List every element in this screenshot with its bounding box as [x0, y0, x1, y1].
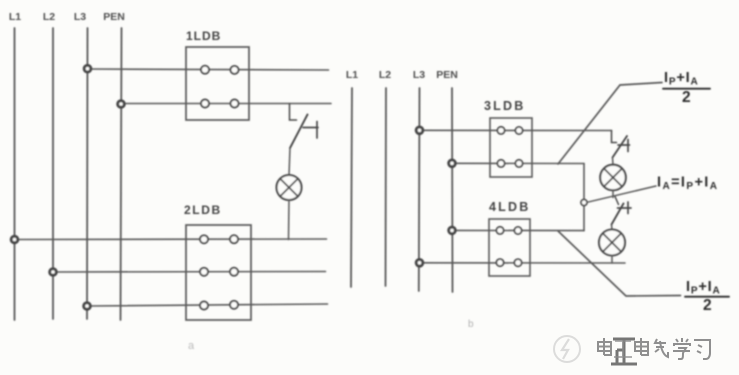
- svg-text:L1: L1: [346, 69, 358, 81]
- junction L3/row3 (a): [84, 303, 91, 310]
- wire L3 tap to 2LDB row3: [87, 304, 328, 306]
- wire switch to lamp (a): [289, 148, 290, 175]
- svg-text:PEN: PEN: [436, 69, 458, 81]
- junction PEN/row1-4LDB (b): [449, 227, 456, 234]
- wire switch to lamp EL2: [612, 158, 615, 165]
- wire L3 tap to 1LDB row1: [88, 69, 329, 70]
- svg-text:4LDB: 4LDB: [489, 200, 530, 214]
- svg-text:PEN: PEN: [103, 11, 125, 23]
- wire L3 tap to 3LDB row1: [420, 129, 612, 131]
- wire L1 vertical (a): [14, 28, 16, 320]
- switch S2 (b upper): [612, 131, 630, 158]
- terminal 2LDB pins: [200, 235, 238, 309]
- terminal 3LDB pins: [497, 127, 522, 167]
- svg-text:a: a: [188, 340, 195, 352]
- char dian 2: [635, 338, 648, 355]
- wire L2 vertical (b): [385, 88, 388, 286]
- svg-text:L1: L1: [9, 11, 21, 23]
- char xue: [673, 338, 690, 359]
- svg-text:2LDB: 2LDB: [184, 203, 222, 217]
- distribution box 3LDB: [484, 99, 532, 177]
- terminal 4LDB pins: [496, 227, 521, 267]
- svg-text:L3: L3: [74, 11, 86, 23]
- wire L3 vertical (a): [86, 28, 89, 319]
- lamp EL2 (b upper): [600, 165, 626, 191]
- wire lamp EL2 to node leader: [612, 190, 614, 197]
- wire PEN vertical (b): [451, 88, 454, 292]
- junction PEN/row2 (a): [118, 101, 125, 108]
- junction L3/row1 (a): [84, 65, 91, 72]
- wire lamp to row1 of 2LDB: [288, 200, 291, 240]
- wire L1 vertical (b): [351, 88, 352, 287]
- wire PEN tap to 3LDB row2: [452, 162, 584, 164]
- lamp EL3 (b lower): [599, 230, 625, 256]
- current label (Ip+Ia)/2 top: [663, 70, 710, 106]
- wire switch to lamp EL3: [611, 225, 614, 230]
- junction PEN/row2 (b): [449, 160, 456, 167]
- svg-text:2: 2: [703, 297, 712, 314]
- wire L1 tap to 2LDB row1: [15, 238, 327, 241]
- distribution box 1LDB: [186, 29, 249, 120]
- diagram a : phase labels: [9, 11, 125, 23]
- svg-text:L2: L2: [43, 11, 55, 23]
- watermark dark glyph (overlap): [611, 339, 637, 364]
- wire diagonal to top fraction label: [558, 83, 662, 165]
- wire L2 vertical (a): [52, 28, 54, 319]
- junction L3/row1 (b): [416, 127, 423, 134]
- switch S3 (b lower): [612, 197, 632, 225]
- distribution box 4LDB: [489, 200, 530, 276]
- watermark text dian-gong-dian-qi-xue-xi (stroke approximation): [598, 338, 710, 359]
- node N (current summing point): [581, 200, 587, 206]
- switch S1 (a): [290, 104, 319, 149]
- junction L3/row2-4LDB (b): [416, 260, 423, 267]
- leader node to current label: [587, 186, 656, 202]
- wire diagonal to bottom fraction label: [558, 231, 681, 296]
- wire PEN tap to 4LDB row1: [452, 229, 584, 231]
- wire PEN tap to 1LDB row2: [121, 103, 331, 105]
- wire L3 tap to 4LDB row2: [420, 262, 626, 264]
- char xi: [694, 340, 710, 359]
- svg-text:3LDB: 3LDB: [484, 99, 525, 113]
- svg-text:2: 2: [682, 89, 691, 106]
- char gong (under dark glyph): [614, 341, 632, 357]
- junction L1/row1 (a): [11, 236, 18, 243]
- wire PEN riser between 3LDB and 4LDB: [583, 164, 585, 231]
- svg-text:L2: L2: [379, 69, 391, 81]
- wire L3 vertical (b): [418, 88, 421, 291]
- current label (Ip+Ia)/2 bottom: [685, 279, 729, 314]
- wire PEN vertical (a): [121, 28, 122, 320]
- char dian 1: [598, 338, 611, 355]
- svg-text:1LDB: 1LDB: [186, 29, 221, 43]
- distribution box 2LDB: [184, 203, 251, 320]
- terminal 1LDB pins: [201, 66, 239, 108]
- wire L2 tap to 2LDB row2: [53, 271, 326, 274]
- lamp EL1 (a): [277, 175, 302, 200]
- wire lamp EL3 to L3 row: [611, 256, 613, 264]
- watermark icon: [554, 336, 580, 362]
- junction L2/row2 (a): [50, 269, 57, 276]
- svg-text:b: b: [468, 319, 474, 330]
- svg-text:L3: L3: [413, 69, 425, 81]
- char qi: [655, 339, 668, 357]
- diagram b : phase labels: [346, 69, 458, 81]
